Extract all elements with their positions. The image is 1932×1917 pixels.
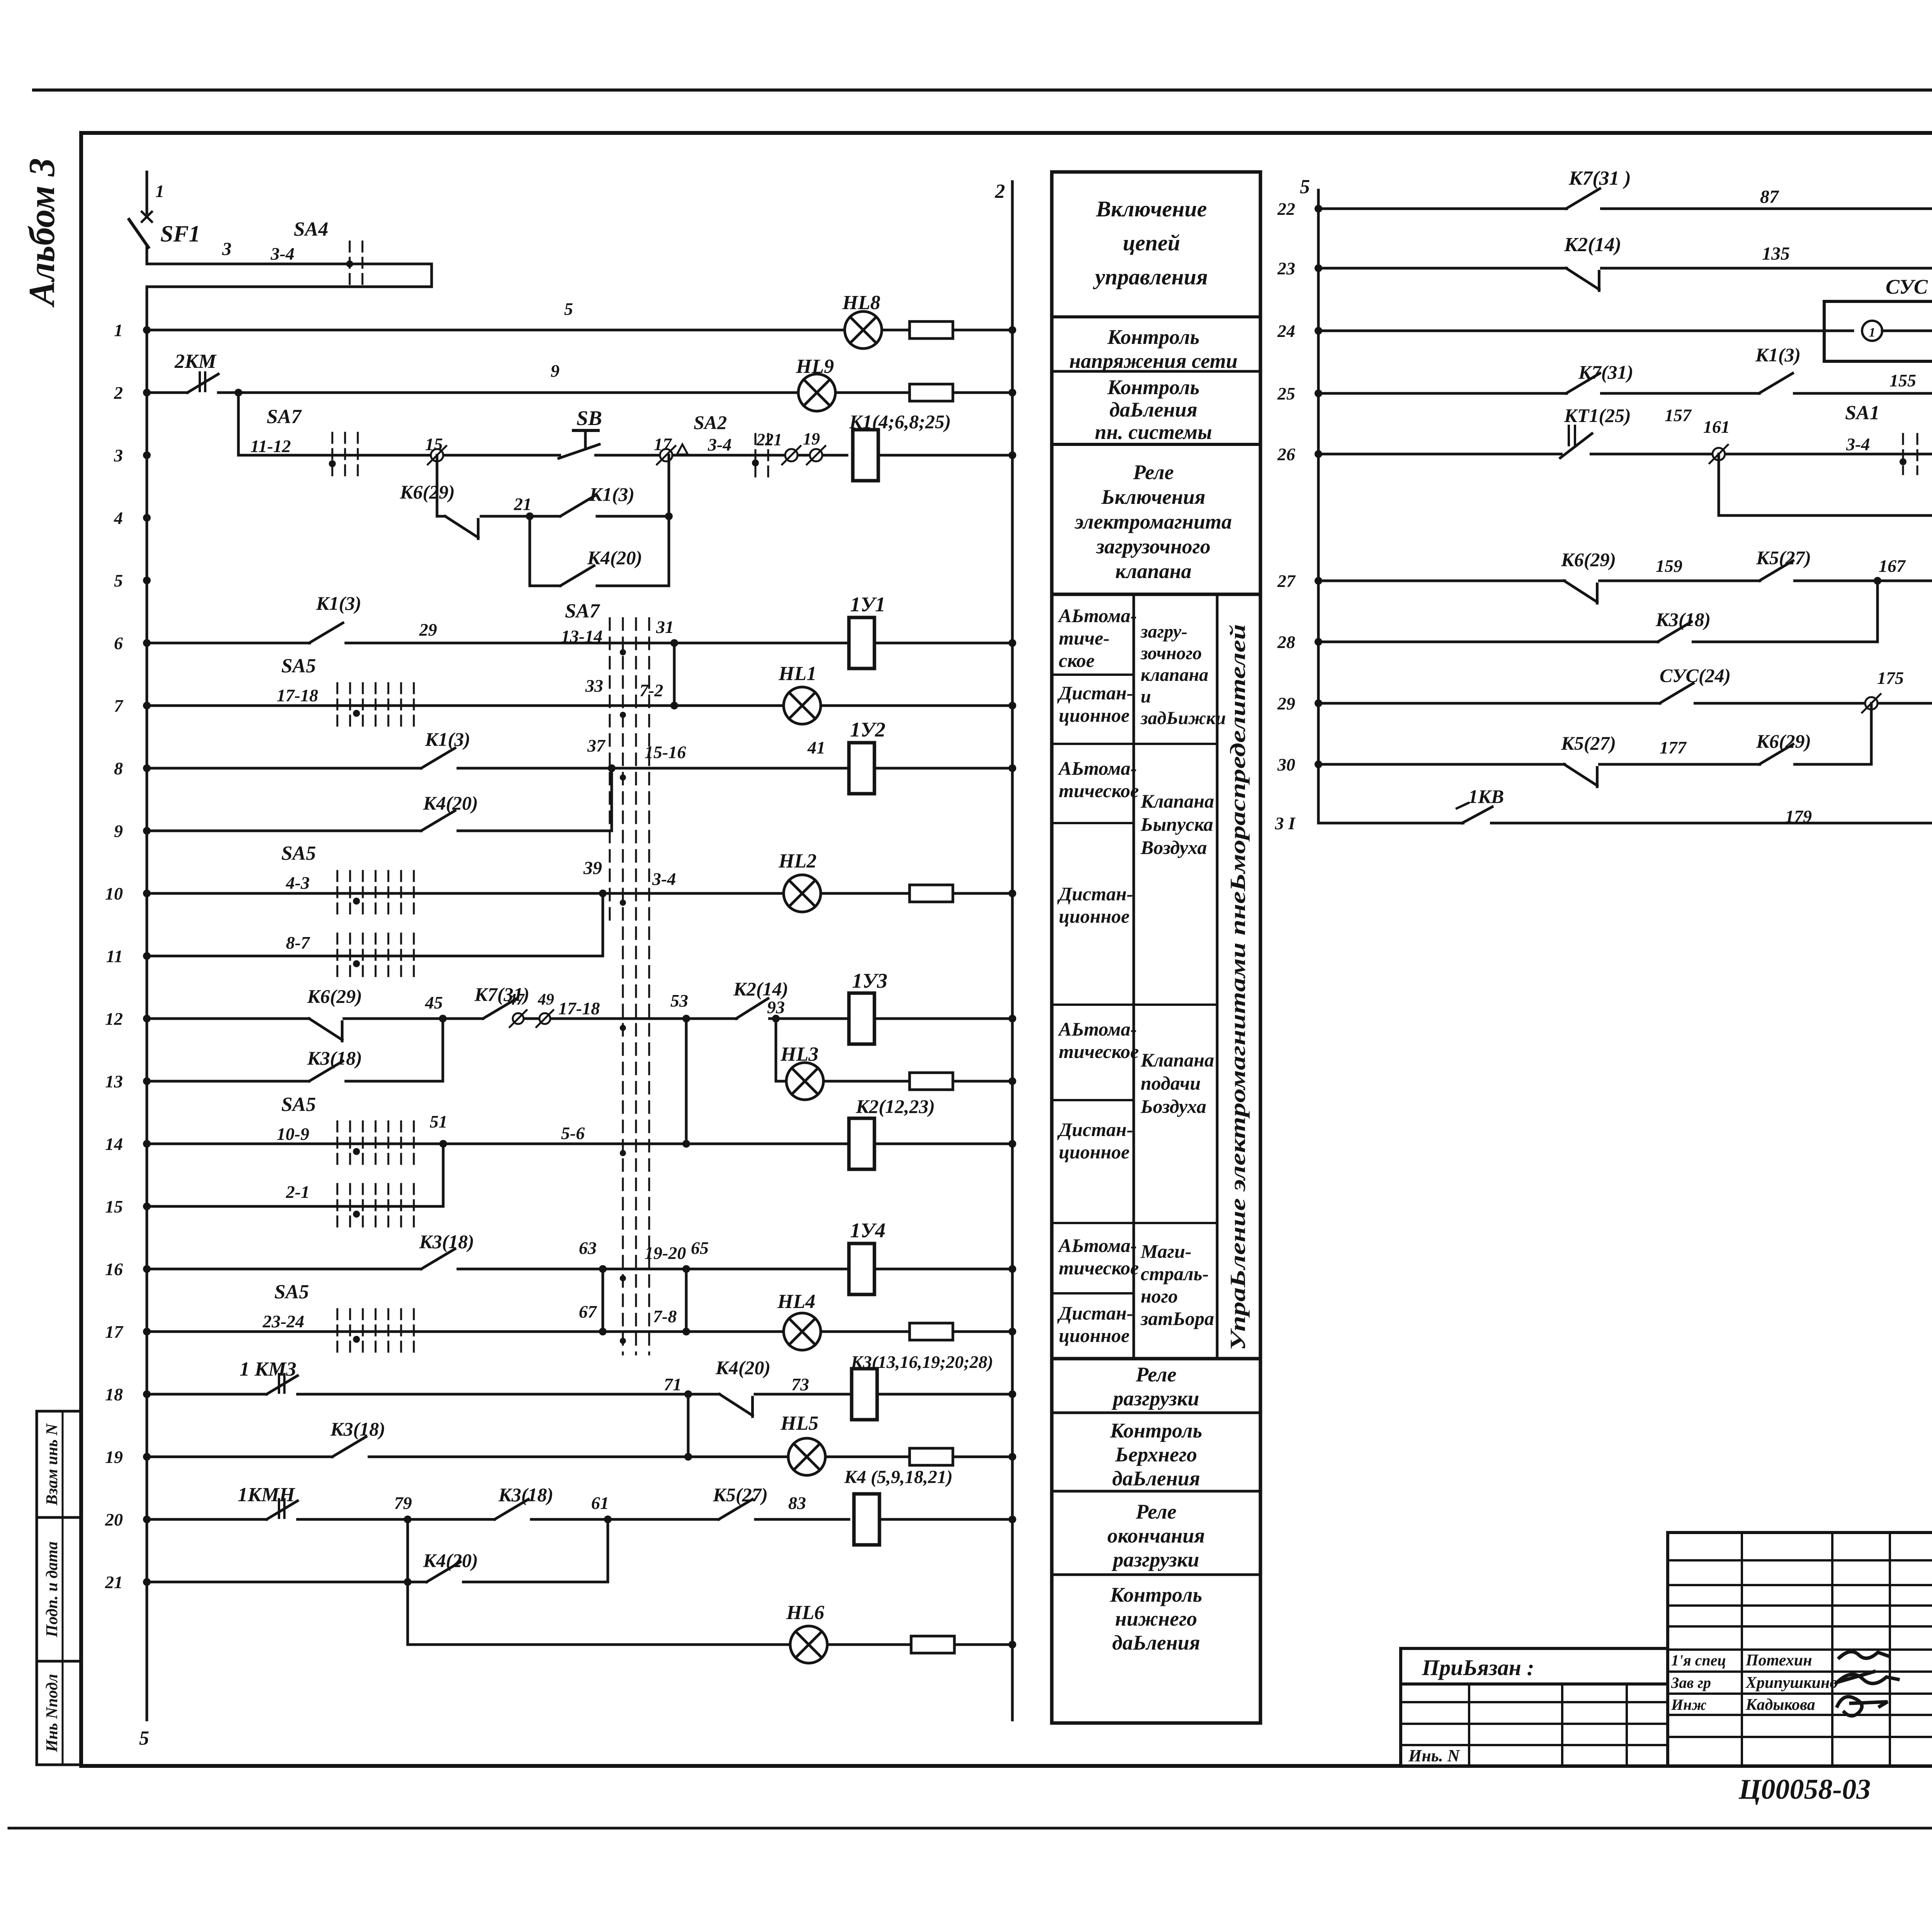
svg-text:13-14: 13-14 xyxy=(561,626,602,646)
wire xyxy=(874,1268,1012,1271)
svg-text:клапана: клапана xyxy=(1141,665,1208,685)
svg-text:К2(12,23): К2(12,23) xyxy=(855,1095,935,1117)
branch 161 down to HL10 xyxy=(1718,454,1720,515)
resistor rung 19 xyxy=(910,1448,953,1465)
title block attach box xyxy=(1401,1648,1668,1684)
svg-text:К1(3): К1(3) xyxy=(589,483,634,505)
switch SA4 contact 3-4 xyxy=(349,242,351,288)
svg-text:93: 93 xyxy=(767,997,785,1017)
wire rung 17 xyxy=(147,1330,785,1333)
terminal 19 xyxy=(810,449,822,461)
resistor rung 2 xyxy=(910,384,953,401)
svg-text:Ьерхнего: Ьерхнего xyxy=(1115,1443,1197,1466)
wire HL6 row xyxy=(408,1643,790,1646)
svg-text:175: 175 xyxy=(1877,668,1904,688)
svg-text:9: 9 xyxy=(114,821,123,841)
svg-text:Маги-: Маги- xyxy=(1140,1240,1192,1262)
wire rung 31 xyxy=(1318,822,1932,825)
wire rung 11 xyxy=(147,955,603,958)
svg-text:39: 39 xyxy=(583,858,602,878)
svg-text:УпраЬление электромагнитами пн: УпраЬление электромагнитами пнеЬмораспре… xyxy=(1226,624,1250,1351)
svg-text:16: 16 xyxy=(105,1259,123,1279)
svg-text:тическое: тическое xyxy=(1059,1257,1139,1279)
wire xyxy=(878,454,1012,457)
svg-text:3-4: 3-4 xyxy=(270,244,294,264)
svg-text:5: 5 xyxy=(1300,176,1310,198)
svg-text:14: 14 xyxy=(105,1134,123,1154)
svg-text:2: 2 xyxy=(114,383,123,403)
wire rung 25 xyxy=(1318,392,1932,395)
svg-text:SА5: SА5 xyxy=(281,1094,316,1116)
svg-text:29: 29 xyxy=(1277,694,1295,713)
wire from terminal 15 down xyxy=(436,455,439,516)
svg-text:1У4: 1У4 xyxy=(850,1219,886,1242)
wire down to rung 5 xyxy=(529,516,531,586)
svg-text:22: 22 xyxy=(1277,199,1295,219)
svg-text:49: 49 xyxy=(537,991,554,1009)
svg-text:Подп. и дата: Подп. и дата xyxy=(43,1541,61,1638)
wire rung 2 cont xyxy=(218,391,798,394)
svg-text:15: 15 xyxy=(105,1197,123,1216)
svg-text:3: 3 xyxy=(114,446,123,465)
svg-text:клапана: клапана xyxy=(1115,560,1191,583)
svg-text:Кадыкова: Кадыкова xyxy=(1745,1696,1815,1714)
svg-text:Реле: Реле xyxy=(1135,1363,1176,1386)
switch SA5 contact 10-9 xyxy=(337,1121,338,1166)
svg-text:Дистан-: Дистан- xyxy=(1057,883,1133,905)
svg-text:67: 67 xyxy=(579,1302,597,1322)
signature scribbles xyxy=(1839,1652,1889,1658)
wire rung 2 xyxy=(147,391,187,394)
resistor rung 10 xyxy=(910,885,953,902)
svg-text:177: 177 xyxy=(1660,738,1687,757)
svg-text:АЬтома-: АЬтома- xyxy=(1058,1235,1137,1256)
svg-text:7: 7 xyxy=(114,696,124,716)
svg-text:3 I: 3 I xyxy=(1275,813,1296,833)
svg-text:Реле: Реле xyxy=(1135,1500,1176,1523)
wire xyxy=(821,892,910,895)
svg-text:Включение: Включение xyxy=(1096,196,1207,221)
svg-text:ционное: ционное xyxy=(1059,1325,1129,1346)
svg-text:К1(3): К1(3) xyxy=(425,728,470,750)
svg-text:SА7: SА7 xyxy=(565,600,600,622)
svg-text:29: 29 xyxy=(419,620,437,640)
branch rung29-rung30 xyxy=(1870,703,1873,764)
title block signature grid xyxy=(1668,1533,1932,1766)
svg-text:Хрипушкино: Хрипушкино xyxy=(1745,1674,1838,1692)
svg-text:1У2: 1У2 xyxy=(850,718,886,741)
svg-text:2: 2 xyxy=(995,180,1005,202)
wire xyxy=(877,1393,1012,1396)
svg-text:Контроль: Контроль xyxy=(1110,1419,1202,1442)
middle table frame xyxy=(1052,172,1260,1723)
wire rung 27 xyxy=(1318,580,1932,582)
branch rung6-rung7 xyxy=(673,643,676,706)
wire HL10 row xyxy=(1719,514,1932,517)
svg-text:161: 161 xyxy=(1703,417,1730,437)
svg-text:3-4: 3-4 xyxy=(1846,434,1870,454)
branch rung18-rung19 xyxy=(687,1394,690,1457)
svg-text:157: 157 xyxy=(1665,405,1692,425)
wire rung 12 xyxy=(147,1017,309,1020)
svg-text:ционное: ционное xyxy=(1059,1141,1129,1163)
svg-text:разгрузки: разгрузки xyxy=(1111,1387,1199,1410)
svg-text:тическое: тическое xyxy=(1059,780,1139,801)
svg-text:Инь. N: Инь. N xyxy=(1408,1746,1461,1765)
svg-text:5: 5 xyxy=(564,299,573,319)
wire rung 29 xyxy=(1318,702,1932,705)
svg-text:71: 71 xyxy=(664,1374,682,1394)
svg-text:45: 45 xyxy=(425,993,443,1012)
svg-text:17-18: 17-18 xyxy=(277,685,318,705)
svg-text:8-7: 8-7 xyxy=(286,933,310,953)
switch SA5 contact 4-3 xyxy=(337,871,338,916)
svg-text:SА5: SА5 xyxy=(281,655,316,677)
wire rung 13 xyxy=(147,1080,309,1083)
terminal 47 xyxy=(513,1013,524,1024)
svg-text:цепей: цепей xyxy=(1123,230,1180,255)
wire rung 24 xyxy=(1318,330,1932,332)
svg-text:АЬтома-: АЬтома- xyxy=(1058,605,1137,626)
branch rung16-rung17 right xyxy=(685,1269,688,1332)
left ladder right rail xyxy=(1011,182,1014,1720)
svg-text:159: 159 xyxy=(1656,556,1682,576)
svg-text:Ьключения: Ьключения xyxy=(1101,485,1205,509)
svg-text:7-8: 7-8 xyxy=(653,1306,677,1326)
wire rung 15 xyxy=(147,1205,443,1208)
svg-text:7-2: 7-2 xyxy=(639,680,663,700)
svg-text:24: 24 xyxy=(1277,321,1295,341)
svg-text:18: 18 xyxy=(105,1385,123,1404)
wire xyxy=(879,1518,1012,1521)
svg-text:1КВ: 1КВ xyxy=(1468,786,1504,807)
wire rung 10 xyxy=(147,892,785,895)
branch 79 down to HL6 row xyxy=(406,1519,409,1645)
wire xyxy=(953,329,1012,332)
wire 3 top feeder xyxy=(146,246,148,264)
svg-text:51: 51 xyxy=(430,1112,447,1131)
svg-text:даЬления: даЬления xyxy=(1112,1467,1200,1490)
svg-text:К7(31 ): К7(31 ) xyxy=(1568,167,1631,189)
terminal 221 xyxy=(785,449,798,461)
branch rung14-rung15 xyxy=(442,1144,445,1206)
wire xyxy=(823,1080,910,1083)
branch rung10-rung11 xyxy=(602,893,604,956)
branch rung8-rung9 xyxy=(611,768,613,831)
svg-text:3: 3 xyxy=(222,239,231,259)
svg-text:19: 19 xyxy=(803,429,820,448)
svg-text:К2(14): К2(14) xyxy=(733,978,788,1000)
terminal 49 xyxy=(539,1013,550,1024)
svg-text:разгрузки: разгрузки xyxy=(1111,1548,1199,1571)
svg-text:11-12: 11-12 xyxy=(250,436,291,456)
margin box Podp i data xyxy=(37,1517,81,1661)
wire xyxy=(874,1017,1012,1020)
svg-text:затЬора: затЬора xyxy=(1140,1308,1214,1329)
wire loop to rail xyxy=(147,264,432,287)
svg-text:8: 8 xyxy=(114,759,123,778)
svg-text:электромагнита: электромагнита xyxy=(1074,510,1232,533)
svg-text:пн. системы: пн. системы xyxy=(1095,420,1212,444)
svg-text:SА2: SА2 xyxy=(694,412,727,433)
margin box Inv N podl xyxy=(37,1661,81,1765)
svg-text:К5(27): К5(27) xyxy=(713,1484,768,1505)
svg-text:HL5: HL5 xyxy=(780,1412,818,1434)
svg-text:нижнего: нижнего xyxy=(1115,1607,1197,1630)
switch SA2 contact 3-4 xyxy=(755,434,757,476)
wire rung 4 xyxy=(481,515,560,518)
svg-text:управления: управления xyxy=(1093,264,1208,289)
wire xyxy=(882,329,910,332)
svg-text:1: 1 xyxy=(1869,325,1876,340)
middle table sub-rows left column xyxy=(1052,674,1134,676)
svg-text:SА7: SА7 xyxy=(267,406,302,428)
svg-text:Взам инь N: Взам инь N xyxy=(43,1423,61,1506)
svg-text:Контроль: Контроль xyxy=(1107,376,1200,399)
svg-text:СУС (29): СУС (29) xyxy=(1886,275,1932,298)
circuit breaker SF1 xyxy=(146,172,148,213)
svg-text:Дистан-: Дистан- xyxy=(1057,1302,1133,1324)
svg-text:К6(29): К6(29) xyxy=(400,481,455,503)
switch SA7 linkage dashed lines xyxy=(622,618,624,1354)
svg-text:221: 221 xyxy=(756,430,782,449)
wire xyxy=(827,1643,912,1646)
svg-text:Ьыпуска: Ьыпуска xyxy=(1140,813,1213,835)
branch rung12-rung14 xyxy=(685,1019,688,1144)
svg-text:К3(18): К3(18) xyxy=(330,1418,385,1440)
svg-text:Дистан-: Дистан- xyxy=(1057,682,1133,704)
svg-text:1 КМЗ: 1 КМЗ xyxy=(240,1358,296,1380)
resistor rung 1 xyxy=(910,321,953,338)
svg-text:15-16: 15-16 xyxy=(645,742,686,762)
svg-text:25: 25 xyxy=(1277,384,1295,403)
svg-text:23-24: 23-24 xyxy=(262,1311,304,1331)
svg-text:Контроль: Контроль xyxy=(1107,325,1200,349)
svg-text:ПриЬязан :: ПриЬязан : xyxy=(1422,1655,1534,1680)
svg-text:167: 167 xyxy=(1879,556,1906,576)
title block attach grid xyxy=(1401,1684,1668,1766)
svg-text:3-4: 3-4 xyxy=(707,435,731,454)
svg-text:65: 65 xyxy=(691,1238,709,1258)
svg-text:6: 6 xyxy=(114,633,123,653)
branch from rung 2 to rung 3 xyxy=(237,393,240,455)
svg-text:17: 17 xyxy=(105,1322,124,1342)
svg-text:Клапана: Клапана xyxy=(1140,1049,1214,1071)
svg-text:К2(14): К2(14) xyxy=(1564,234,1621,256)
svg-text:напряжения сети: напряжения сети xyxy=(1069,349,1238,373)
svg-text:К4 (5,9,18,21): К4 (5,9,18,21) xyxy=(844,1467,953,1487)
svg-text:HL1: HL1 xyxy=(778,663,816,685)
switch SA7 linkage dashed lines short xyxy=(609,618,611,927)
wire xyxy=(835,391,910,394)
svg-text:1'я спец: 1'я спец xyxy=(1671,1652,1726,1669)
svg-text:загрузочного: загрузочного xyxy=(1095,535,1211,558)
svg-text:135: 135 xyxy=(1762,243,1790,264)
svg-text:30: 30 xyxy=(1277,755,1295,774)
svg-text:5-6: 5-6 xyxy=(561,1123,585,1143)
svg-text:13: 13 xyxy=(105,1072,123,1091)
wire rung 28 xyxy=(1318,641,1878,643)
svg-text:К5(27): К5(27) xyxy=(1561,732,1616,754)
switch SA5 contact 17-18 xyxy=(337,683,338,728)
svg-text:К6(29): К6(29) xyxy=(307,985,362,1007)
svg-text:ного: ного xyxy=(1141,1285,1178,1307)
left rail node 1 xyxy=(146,287,148,1720)
svg-text:Потехин: Потехин xyxy=(1745,1652,1812,1669)
svg-text:1КМН: 1КМН xyxy=(238,1484,296,1506)
wire xyxy=(874,1143,1012,1145)
branch 93 down to HL3 xyxy=(775,1019,777,1081)
svg-text:К1(3): К1(3) xyxy=(316,592,361,614)
branch rung12-rung13 xyxy=(442,1019,444,1081)
svg-text:HL4: HL4 xyxy=(777,1291,815,1313)
svg-text:1: 1 xyxy=(114,320,123,340)
svg-text:31: 31 xyxy=(656,617,674,637)
resistor rung 13 xyxy=(910,1073,953,1090)
wire rung 1 xyxy=(147,329,845,332)
svg-text:17-18: 17-18 xyxy=(558,998,600,1018)
wire xyxy=(874,642,1012,645)
svg-text:даЬления: даЬления xyxy=(1109,398,1197,421)
branch rung16-rung17 left xyxy=(602,1269,604,1332)
wire rung 26 xyxy=(1318,453,1932,456)
svg-text:ское: ское xyxy=(1059,650,1095,671)
svg-text:SА5: SА5 xyxy=(274,1281,309,1303)
svg-text:83: 83 xyxy=(788,1493,806,1513)
svg-text:2КМ: 2КМ xyxy=(174,350,217,373)
svg-text:79: 79 xyxy=(394,1493,412,1513)
svg-text:1У3: 1У3 xyxy=(852,969,888,992)
svg-text:155: 155 xyxy=(1889,371,1916,390)
svg-text:HL2: HL2 xyxy=(778,850,816,872)
svg-text:подачи: подачи xyxy=(1141,1072,1201,1094)
svg-text:53: 53 xyxy=(670,991,688,1010)
wire xyxy=(874,767,1012,770)
svg-text:страль-: страль- xyxy=(1141,1263,1209,1284)
svg-text:5: 5 xyxy=(139,1727,149,1749)
svg-text:21: 21 xyxy=(514,494,532,514)
switch SA5 contact 8-7 xyxy=(337,934,338,978)
svg-text:26: 26 xyxy=(1277,444,1295,464)
svg-text:задЬижки: задЬижки xyxy=(1140,708,1226,728)
svg-text:Контроль: Контроль xyxy=(1110,1583,1202,1606)
svg-text:Клапана: Клапана xyxy=(1140,790,1214,812)
sheet top border line xyxy=(34,88,1932,92)
svg-text:тиче-: тиче- xyxy=(1059,627,1110,649)
svg-text:ционное: ционное xyxy=(1059,704,1129,726)
svg-text:Ц00058-03: Ц00058-03 xyxy=(1738,1774,1871,1805)
svg-text:1У1: 1У1 xyxy=(850,593,886,616)
svg-text:4-3: 4-3 xyxy=(286,873,310,893)
svg-text:SА5: SА5 xyxy=(281,842,316,864)
svg-text:61: 61 xyxy=(591,1493,609,1513)
svg-text:Зав гр: Зав гр xyxy=(1671,1674,1711,1691)
svg-text:К1(3): К1(3) xyxy=(1755,344,1801,366)
wire rung 9 xyxy=(147,830,421,832)
svg-text:Инж: Инж xyxy=(1671,1696,1706,1713)
svg-text:41: 41 xyxy=(807,738,825,757)
wire rung 14 xyxy=(147,1143,849,1145)
svg-text:К7(31): К7(31) xyxy=(1578,361,1633,383)
svg-text:87: 87 xyxy=(1760,187,1779,207)
svg-text:К6(29): К6(29) xyxy=(1561,549,1616,570)
switch SA5 contact 23-24 xyxy=(337,1309,338,1354)
switch SA5 contact 2-1 xyxy=(337,1184,338,1229)
svg-text:Воздуха: Воздуха xyxy=(1140,837,1207,858)
svg-text:4: 4 xyxy=(114,508,123,528)
svg-text:зочного: зочного xyxy=(1140,643,1202,663)
switch SA7 linkage junction dots xyxy=(620,649,626,655)
margin box Vzam inv N xyxy=(37,1411,81,1517)
wire rung 18 xyxy=(147,1393,267,1396)
svg-text:К4(20): К4(20) xyxy=(715,1357,770,1378)
svg-text:SА4: SА4 xyxy=(294,218,328,240)
svg-text:47: 47 xyxy=(508,991,525,1009)
middle table sub-rows mid column xyxy=(1134,743,1217,745)
svg-text:окончания: окончания xyxy=(1107,1524,1205,1547)
terminal 175 xyxy=(1865,697,1878,709)
wire xyxy=(825,1456,910,1458)
svg-text:3-4: 3-4 xyxy=(652,869,676,889)
svg-text:20: 20 xyxy=(105,1510,123,1529)
svg-text:даЬления: даЬления xyxy=(1112,1631,1200,1654)
svg-text:73: 73 xyxy=(791,1374,809,1394)
resistor HL6 xyxy=(911,1636,954,1653)
svg-text:SА1: SА1 xyxy=(1845,402,1880,424)
wire rung 20 xyxy=(147,1518,267,1521)
svg-text:тическое: тическое xyxy=(1059,1041,1139,1062)
svg-text:SF1: SF1 xyxy=(160,221,200,247)
sheet bottom border line xyxy=(9,1827,1932,1830)
svg-text:Инь Nподл: Инь Nподл xyxy=(43,1674,61,1752)
resistor rung 17 xyxy=(910,1323,953,1340)
svg-text:9: 9 xyxy=(551,361,560,381)
wire xyxy=(821,1330,910,1333)
wire rung 16 xyxy=(147,1268,421,1271)
wire xyxy=(953,391,1012,394)
svg-text:11: 11 xyxy=(106,946,123,966)
svg-text:Дистан-: Дистан- xyxy=(1057,1119,1133,1140)
svg-text:HL6: HL6 xyxy=(786,1602,824,1624)
svg-text:К3(18): К3(18) xyxy=(419,1231,474,1252)
wire rung 30 xyxy=(1318,763,1871,766)
svg-text:Альбом 3: Альбом 3 xyxy=(21,158,62,308)
svg-text:12: 12 xyxy=(105,1009,123,1029)
wire xyxy=(821,704,1012,707)
svg-text:Реле: Реле xyxy=(1133,461,1173,484)
svg-text:179: 179 xyxy=(1785,806,1812,826)
svg-text:Ьоздуха: Ьоздуха xyxy=(1140,1095,1206,1117)
svg-text:АЬтома-: АЬтома- xyxy=(1058,1018,1137,1040)
svg-text:27: 27 xyxy=(1277,571,1296,591)
wire rung 22 xyxy=(1318,208,1932,210)
svg-text:19: 19 xyxy=(105,1447,123,1467)
svg-text:ционное: ционное xyxy=(1059,905,1129,927)
switch SA7 contact 11-12 xyxy=(332,433,333,478)
svg-text:2-1: 2-1 xyxy=(286,1182,310,1202)
svg-text:63: 63 xyxy=(579,1238,597,1258)
svg-text:5: 5 xyxy=(114,571,123,590)
branch 61 rung20-rung21 xyxy=(607,1519,609,1582)
svg-text:КТ1(25): КТ1(25) xyxy=(1564,405,1631,426)
wire rung 7 xyxy=(147,704,785,707)
svg-text:10-9: 10-9 xyxy=(277,1124,309,1144)
wire rung 6 xyxy=(147,642,321,645)
svg-text:HL3: HL3 xyxy=(780,1043,818,1065)
svg-text:СУС(24): СУС(24) xyxy=(1660,665,1731,686)
svg-text:28: 28 xyxy=(1277,632,1295,652)
branch rung27-rung28 xyxy=(1876,581,1879,642)
